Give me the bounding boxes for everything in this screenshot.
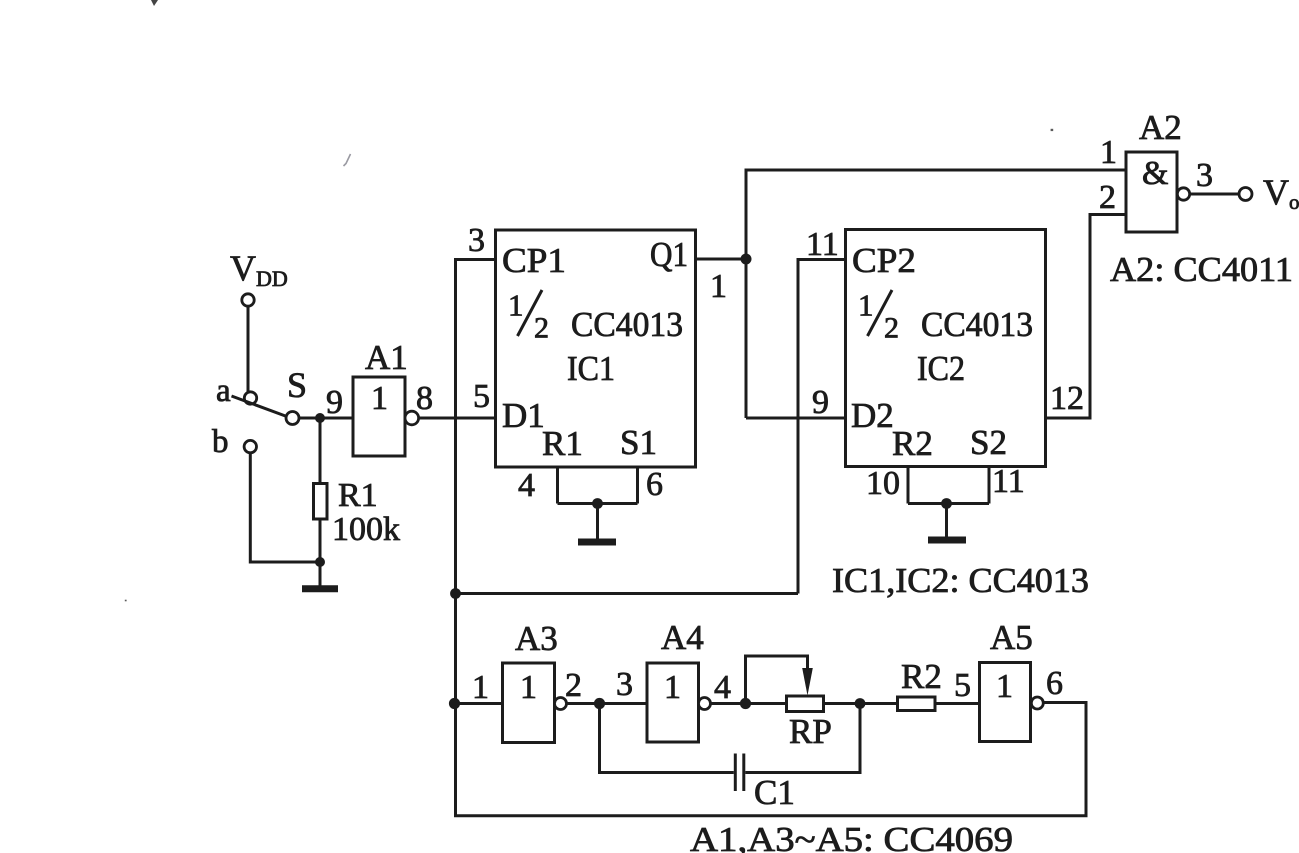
svg-text:R1: R1 [338, 477, 378, 514]
switch contact b [244, 440, 256, 452]
terminal VDD [242, 294, 254, 306]
svg-text:6: 6 [1046, 665, 1063, 702]
arrow RP wiper [802, 668, 813, 696]
bubble A3 output [555, 698, 567, 710]
svg-text:1: 1 [1100, 134, 1117, 171]
wire A3 input [456, 702, 503, 705]
wire main vertical CP1 feed [454, 260, 457, 816]
bubble A1 output [405, 411, 419, 425]
ground left [319, 562, 322, 586]
inverter A1 [353, 377, 405, 456]
switch S blade [232, 396, 287, 417]
svg-text:1: 1 [664, 669, 681, 706]
svg-text:R2: R2 [901, 657, 942, 696]
svg-text:5: 5 [473, 378, 490, 415]
wire VDD to switch contact a [247, 307, 250, 392]
ground IC1 [596, 504, 599, 539]
wire b to ground node [250, 453, 320, 562]
svg-text:CP2: CP2 [852, 241, 916, 280]
resistor R2 [898, 697, 936, 711]
wire R2 to A5 [935, 702, 980, 705]
node junction IC2 ground [941, 498, 952, 509]
bubble A4 output [699, 698, 711, 710]
wire D2 [746, 417, 846, 420]
wire CP2 [798, 258, 846, 261]
node junction S/R1 [315, 413, 325, 423]
inverter A5 [980, 663, 1031, 742]
wire bottom rail [454, 814, 1088, 817]
wire RP to R2 [824, 702, 898, 705]
svg-text:CC4013: CC4013 [921, 305, 1033, 344]
svg-text:IC1,IC2: CC4013: IC1,IC2: CC4013 [832, 561, 1089, 600]
svg-text:IC1: IC1 [567, 349, 615, 388]
nand gate A2 [1126, 152, 1177, 232]
wire top rail to A2 pin1 [745, 169, 1127, 172]
node junction C1 right [855, 698, 866, 709]
wire Q1 vertical [745, 170, 748, 418]
svg-text:3: 3 [468, 222, 485, 259]
svg-text:9: 9 [812, 384, 829, 421]
svg-text:RP: RP [789, 712, 832, 751]
wire pin10-pin11 join [908, 502, 989, 505]
svg-text:A4: A4 [661, 618, 704, 657]
IC1 pin 4 wire [556, 467, 559, 504]
wire CP1 [454, 258, 496, 261]
speck dot left [125, 600, 127, 602]
svg-text:9: 9 [326, 384, 343, 421]
wire C1 left branch [600, 704, 734, 773]
svg-text:4: 4 [714, 669, 731, 706]
wire pin4-pin6 join [558, 502, 638, 505]
svg-text:1: 1 [858, 288, 874, 323]
wire pin12 to A2 pin2 [1046, 215, 1127, 419]
speck slash mark [344, 154, 351, 166]
svg-text:b: b [212, 424, 229, 460]
IC2 flip-flop box [846, 230, 1046, 467]
inverter A4 [647, 663, 699, 742]
svg-text:2: 2 [565, 667, 582, 704]
svg-text:1: 1 [371, 380, 388, 417]
IC2 pin 11 wire [988, 467, 991, 504]
svg-text:8: 8 [416, 380, 433, 417]
svg-text:S: S [287, 365, 307, 405]
terminal Vo [1239, 188, 1252, 201]
IC1 pin 6 wire [636, 467, 639, 504]
switch contact a [244, 392, 256, 404]
svg-text:S1: S1 [620, 423, 657, 462]
speck dot upper right [1051, 129, 1054, 131]
svg-text:1: 1 [996, 668, 1013, 705]
speck top-left [151, 0, 158, 6]
wire RP wiper loop [746, 656, 808, 704]
switch pole circle [286, 412, 299, 425]
node junction IC1 ground [592, 498, 603, 509]
svg-text:R2: R2 [892, 424, 933, 463]
svg-text:A2: CC4011: A2: CC4011 [1110, 250, 1293, 289]
svg-text:11: 11 [992, 463, 1025, 500]
inverter A3 [503, 663, 555, 743]
wire A5 out to bottom rail [1043, 703, 1086, 816]
node junction RP left [740, 698, 751, 709]
wire oscillator feed horizontal [456, 592, 799, 595]
ground IC2 [945, 504, 948, 537]
svg-text:1: 1 [472, 669, 489, 706]
wire CP2 vertical [797, 258, 800, 594]
svg-text:Q1: Q1 [650, 235, 688, 274]
svg-text:4: 4 [518, 467, 535, 504]
svg-text:C1: C1 [754, 773, 795, 812]
svg-text:100k: 100k [332, 511, 400, 548]
svg-text:CC4013: CC4013 [571, 305, 683, 344]
wire S to A1 input [299, 417, 353, 420]
wire A3 out to A4 in [567, 702, 648, 705]
svg-text:a: a [216, 373, 231, 409]
node junction C1 left [594, 698, 605, 709]
svg-text:A2: A2 [1139, 108, 1182, 147]
svg-text:2: 2 [534, 312, 549, 345]
svg-text:A1: A1 [365, 338, 408, 377]
svg-text:1: 1 [520, 669, 537, 706]
svg-text:S2: S2 [970, 423, 1007, 462]
wire A4 out to RP [711, 702, 787, 705]
IC1 flip-flop box [496, 230, 696, 467]
svg-text:11: 11 [806, 226, 839, 263]
capacitor C1 [734, 754, 737, 792]
svg-text:A1,A3~A5: CC4069: A1,A3~A5: CC4069 [690, 820, 1013, 853]
svg-text:3: 3 [1196, 157, 1213, 194]
svg-text:A3: A3 [515, 619, 558, 658]
potentiometer RP [787, 696, 824, 712]
node junction osc/CP1 [450, 588, 461, 599]
wire C1 right branch [745, 704, 860, 773]
svg-text:CP1: CP1 [502, 241, 566, 280]
wire R1 top [319, 418, 322, 484]
svg-text:1: 1 [508, 288, 524, 323]
svg-text:3: 3 [616, 666, 633, 703]
svg-text:1: 1 [710, 268, 727, 305]
wire Q1 output [696, 258, 747, 261]
wire A1 out to D1 [419, 417, 496, 420]
node junction R1/b/ground [315, 557, 325, 567]
svg-text:5: 5 [954, 667, 971, 704]
resistor R1 [314, 484, 328, 520]
wire R1 bottom [319, 519, 322, 562]
svg-text:10: 10 [866, 465, 900, 502]
svg-text:D1: D1 [502, 396, 545, 435]
svg-text:2: 2 [1099, 179, 1116, 216]
node junction A3 input [449, 698, 460, 709]
svg-text:IC2: IC2 [917, 349, 965, 388]
svg-text:12: 12 [1050, 380, 1084, 417]
bubble A2 output [1177, 188, 1189, 200]
svg-text:&: & [1142, 155, 1168, 192]
svg-text:2: 2 [884, 312, 899, 345]
svg-text:6: 6 [646, 466, 663, 503]
bubble A5 output [1031, 697, 1043, 709]
svg-text:A5: A5 [990, 618, 1033, 657]
IC2 pin 10 wire [907, 467, 910, 504]
node junction Q1 [741, 254, 752, 265]
wire A2 output [1190, 193, 1239, 196]
svg-text:D2: D2 [851, 396, 894, 435]
svg-text:R1: R1 [542, 424, 583, 463]
